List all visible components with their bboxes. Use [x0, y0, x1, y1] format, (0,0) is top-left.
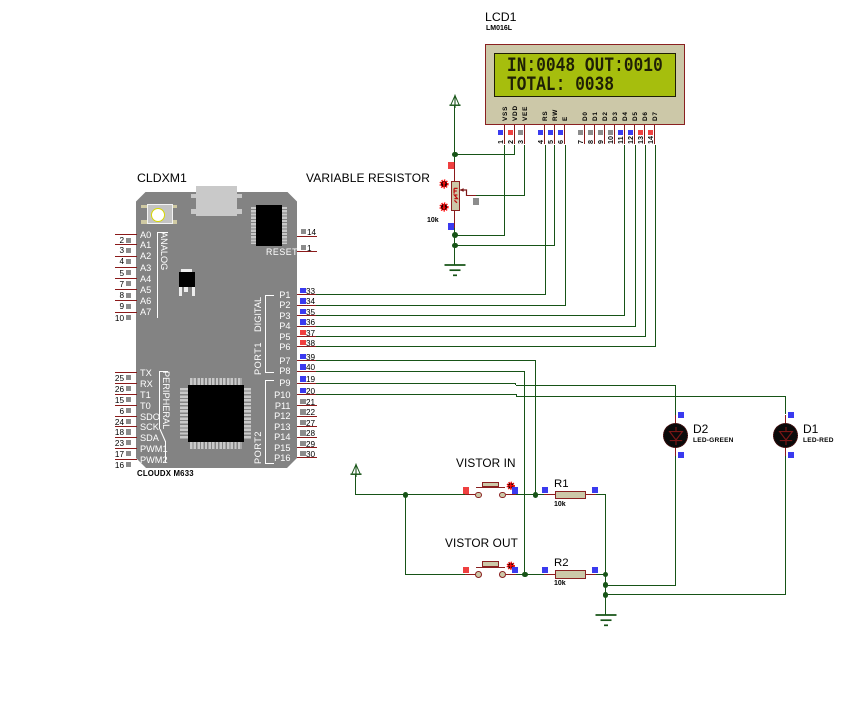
LCD pin 12 (D5) stub — [634, 125, 635, 145]
pin 24 (SDO) stub — [115, 416, 137, 417]
junction D2 cathode net — [603, 582, 609, 588]
pin 14 (reset header) stub — [297, 236, 318, 237]
pin 16 (PWM2) stub — [115, 459, 137, 460]
LCD pin 9 (D2) stub — [604, 125, 605, 145]
pin 7 (A4) stub — [115, 278, 137, 279]
LED D1 LED-RED body — [773, 423, 798, 448]
pin 26 (RX) stub — [115, 383, 137, 384]
pin 20 (P10) stub — [297, 394, 317, 395]
wire RV1 bottom to ground — [454, 228, 455, 266]
LCD pin 3 (VEE) stub — [524, 125, 525, 145]
QFP microcontroller chip on board — [190, 378, 242, 385]
power symbol +V (buttons) — [349, 463, 363, 477]
pin 40 (P8) stub — [297, 371, 317, 372]
LCD pin 10 (D3) stub — [614, 125, 615, 145]
USB connector on board — [196, 186, 236, 216]
label PORT1 (rotated) — [253, 342, 263, 375]
wire P8 net to VISTOR OUT button — [316, 371, 525, 372]
wire D5 net (P4 to LCD pin12) — [316, 326, 636, 327]
LCD screen — [494, 53, 676, 97]
push button VISTOR OUT (SW2) — [465, 574, 475, 575]
wire RW net (ground rail to LCD pin5) — [455, 245, 555, 246]
label RESET — [266, 248, 298, 258]
pin 36 (P4) stub — [297, 326, 317, 327]
pin 4 (A2) stub — [115, 256, 137, 257]
pin 34 (P2) stub — [297, 305, 317, 306]
ground symbol (variable resistor) — [444, 264, 466, 277]
LCD pin 13 (D6) stub — [644, 125, 645, 145]
pin 28 (P14) stub — [297, 437, 317, 438]
pin 18 (SCK) stub — [115, 426, 137, 427]
LED D1 LED-RED stubs — [785, 415, 786, 425]
push button VISTOR IN (SW1) — [465, 494, 475, 495]
junction P7 / button / R1 — [533, 492, 539, 498]
wire D1 cathode to ground rail — [785, 456, 786, 595]
variable resistor RV1 wiper stub — [466, 195, 476, 196]
junction D1 cathode net — [603, 592, 609, 598]
label ANALOG (rotated) — [158, 232, 168, 270]
LCD pin 5 (RW) stub — [554, 125, 555, 145]
PORT1/DIGITAL group bracket — [265, 295, 274, 296]
pin 23 (SDA) stub — [115, 437, 137, 438]
LED D2 LED-GREEN stubs — [675, 415, 676, 425]
LCD text line 1: IN:0048 OUT:0010 — [507, 56, 663, 76]
junction R2 / ground rail — [603, 572, 609, 578]
junction P8 / button / R2 — [522, 572, 528, 578]
pin 35 (P3) stub — [297, 315, 317, 316]
ground symbol (buttons/resistors) — [595, 614, 617, 627]
wire D6 net (P5 to LCD pin13) — [316, 336, 646, 337]
label LM016L — [486, 25, 512, 33]
LCD display LCD1 body — [485, 44, 685, 125]
pin 5 (A3) stub — [115, 267, 137, 268]
LED D2 LED-GREEN body — [663, 423, 688, 448]
variable resistor RV1 down adjust button — [439, 202, 449, 212]
wire +V branch down to VISTOR OUT — [405, 495, 406, 575]
RV1 terminal marker (red) — [448, 162, 454, 168]
pin 15 (T1) stub — [115, 394, 137, 395]
pin 27 (P13) stub — [297, 426, 317, 427]
junction VSS tap — [452, 232, 458, 238]
label PORT2 (rotated) — [253, 431, 263, 464]
pin 9 (A6) stub — [115, 300, 137, 301]
wire P10 net to LED D1 — [316, 394, 517, 395]
wire ground rail down — [605, 575, 606, 616]
pin 1 (reset header) stub — [297, 251, 318, 252]
wire P7 net to VISTOR IN button — [316, 360, 536, 361]
junction button supply — [403, 492, 409, 498]
label LCD1 — [485, 11, 516, 25]
LCD text line 2: TOTAL: 0038 — [507, 75, 614, 95]
variable resistor RV1 wiper arrow — [458, 186, 470, 198]
pin 39 (P7) stub — [297, 360, 317, 361]
ANALOG group bracket — [157, 232, 168, 233]
label VARIABLE RESISTOR — [306, 172, 430, 185]
variable resistor RV1 up adjust button — [439, 179, 449, 189]
label PERIPHERAL (rotated) — [161, 371, 171, 429]
junction RW tap — [452, 243, 458, 249]
LCD pin 14 (D7) stub — [654, 125, 655, 145]
variable resistor RV1 inner marking — [453, 187, 459, 205]
junction +V / VDD — [452, 152, 458, 158]
pin 10 (A7) stub — [115, 312, 137, 313]
wire +V rail to buttons — [355, 475, 356, 495]
wire VEE net (pot wiper to LCD pin3) — [476, 195, 525, 196]
variable resistor RV1 bottom stub — [454, 210, 455, 228]
pin 2 (A0) stub — [115, 234, 137, 235]
pin 21 (P11) stub — [297, 405, 317, 406]
pin 37 (P5) stub — [297, 336, 317, 337]
voltage regulator on board — [181, 269, 193, 271]
variable resistor RV1 top stub — [454, 162, 455, 182]
pin 6 (T0) stub — [115, 405, 137, 406]
LCD pin 8 (D1) stub — [594, 125, 595, 145]
wire VSS net (ground rail to LCD pin1) — [455, 235, 505, 236]
label RV1 value 10k — [427, 217, 439, 225]
pin 25 (TX) stub — [115, 372, 137, 373]
LCD pin 1 (VSS) stub — [504, 125, 505, 145]
power symbol +V (top, variable resistor) — [448, 94, 462, 108]
resistor R1 10k — [516, 494, 544, 495]
wire E net (P2 to LCD pin6) — [316, 305, 566, 306]
RV1 wiper marker (gray) — [473, 198, 479, 204]
LCD pin 2 (VDD) stub — [514, 125, 515, 145]
wire R1 right to R2 right — [605, 495, 606, 575]
pin 33 (P1) stub — [297, 294, 317, 295]
LCD pin 6 (E) stub — [564, 125, 565, 145]
pin 17 (PWM1) stub — [115, 448, 137, 449]
wire VDD net (pot top to LCD pin2) — [455, 154, 515, 155]
RV1 terminal marker (blue) — [448, 223, 454, 229]
microcontroller board CLDXM1 body — [136, 192, 297, 469]
pin 38 (P6) stub — [297, 346, 317, 347]
wire D2 cathode to ground rail — [675, 456, 676, 586]
wire D4 net (P3 to LCD pin11) — [316, 315, 625, 316]
LCD pin 11 (D4) stub — [624, 125, 625, 145]
variable resistor RV1 body — [451, 181, 460, 211]
pin 3 (A1) stub — [115, 244, 137, 245]
label CLOUDX M633 — [137, 470, 194, 479]
pin 22 (P12) stub — [297, 416, 317, 417]
label CLDXM1 — [137, 172, 187, 186]
pin 19 (P9) stub — [297, 383, 317, 384]
reset push-button on board — [141, 205, 146, 208]
PORT2 group bracket — [265, 380, 274, 381]
LCD pin 7 (D0) stub — [584, 125, 585, 145]
resistor R2 10k — [516, 574, 544, 575]
wire RS net (P1 to LCD pin4) — [316, 294, 546, 295]
wire P9 net to LED D2 — [316, 383, 516, 384]
label DIGITAL (rotated) — [253, 297, 263, 332]
wire D7 net (P6 to LCD pin14) — [316, 346, 656, 347]
pin 8 (A5) stub — [115, 289, 137, 290]
SOIC IC on board — [251, 207, 256, 244]
LCD pin 4 (RS) stub — [544, 125, 545, 145]
pin 29 (P15) stub — [297, 447, 317, 448]
pin 30 (P16) stub — [297, 457, 317, 458]
wire +V rail down to RV1 — [454, 106, 455, 163]
PERIPHERAL group bracket — [159, 371, 168, 372]
